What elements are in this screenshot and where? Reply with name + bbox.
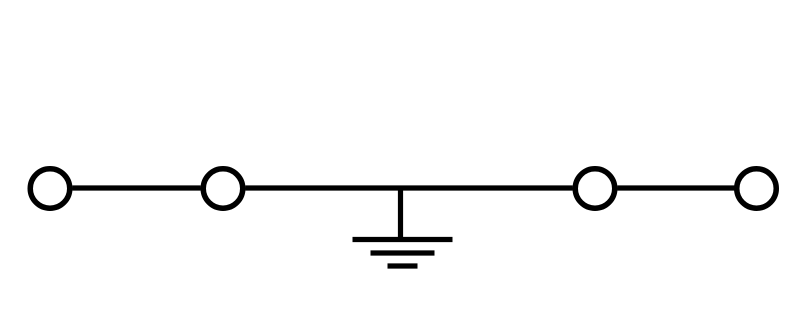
terminal circle 2 (left inner clamp point) bbox=[203, 169, 243, 209]
ground symbol bottom bar bbox=[388, 263, 418, 268]
ground symbol middle bar bbox=[371, 250, 435, 255]
terminal circle 1 (left outer clamp point) bbox=[30, 169, 70, 209]
wire from terminal 1 to terminal 2 bbox=[72, 185, 200, 190]
terminal circle 3 (right inner clamp point) bbox=[575, 169, 615, 209]
wire from terminal 2 across ground tap to terminal 3 bbox=[245, 185, 572, 190]
wire from terminal 3 to terminal 4 bbox=[617, 185, 734, 190]
terminal circle 4 (right outer clamp point) bbox=[737, 169, 777, 209]
ground symbol stem (vertical tap from wire) bbox=[398, 188, 403, 240]
ground symbol top bar bbox=[353, 237, 453, 242]
